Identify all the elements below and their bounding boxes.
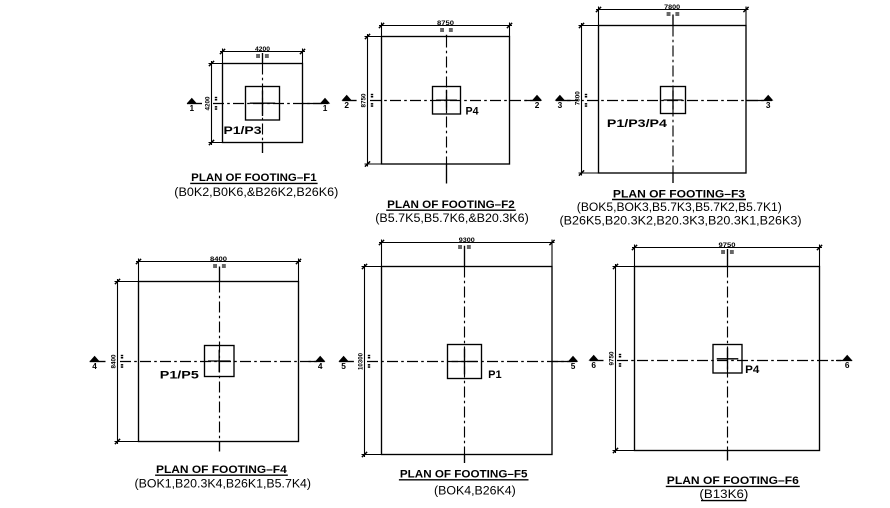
svg-text:PLAN OF FOOTING–F6: PLAN OF FOOTING–F6 bbox=[667, 475, 799, 487]
svg-text:P1/P3: P1/P3 bbox=[224, 125, 262, 137]
footing F4 horizontal section line bbox=[120, 361, 320, 363]
section marker 3 (left) bbox=[556, 100, 571, 102]
svg-text:PLAN OF FOOTING–F4: PLAN OF FOOTING–F4 bbox=[156, 464, 288, 476]
svg-text:P1/P5: P1/P5 bbox=[160, 370, 199, 382]
svg-text:3: 3 bbox=[766, 100, 771, 110]
svg-text:(B5.7K5,B5.7K6,&B20.3K6): (B5.7K5,B5.7K6,&B20.3K6) bbox=[375, 213, 529, 225]
svg-text:PLAN OF FOOTING–F2: PLAN OF FOOTING–F2 bbox=[387, 199, 515, 211]
centerline break marks left bbox=[371, 94, 373, 96]
centerline break marks left bbox=[368, 355, 370, 357]
footing F3 top dimension line 7800 bbox=[596, 7, 749, 26]
section marker 5 (left) bbox=[339, 361, 354, 363]
section marker 1 (left) bbox=[187, 103, 202, 105]
svg-text:8400: 8400 bbox=[111, 354, 118, 368]
footing F4 outline bbox=[139, 282, 299, 442]
footing F2 horizontal section line bbox=[370, 100, 536, 102]
footing F5 top dimension line 9300 bbox=[379, 240, 555, 267]
svg-text:P1: P1 bbox=[488, 369, 502, 381]
svg-text:5: 5 bbox=[571, 361, 576, 371]
footing F2 vertical centerline bbox=[446, 37, 448, 165]
footing F2 column pedestal bbox=[433, 87, 461, 115]
svg-text:4: 4 bbox=[318, 361, 323, 371]
centerline break marks left bbox=[619, 354, 621, 356]
svg-text:(B0K2,B0K6,&B26K2,B26K6): (B0K2,B0K6,&B26K2,B26K6) bbox=[174, 187, 338, 199]
footing F6 horizontal section line bbox=[617, 360, 841, 362]
svg-text:PLAN OF FOOTING–F1: PLAN OF FOOTING–F1 bbox=[191, 172, 316, 184]
svg-text:5: 5 bbox=[341, 361, 346, 371]
svg-text:PLAN OF FOOTING–F5: PLAN OF FOOTING–F5 bbox=[400, 469, 528, 481]
svg-text:9750: 9750 bbox=[719, 242, 737, 249]
footing F5 column pedestal bbox=[448, 345, 482, 379]
section marker 3 (right) bbox=[746, 100, 772, 102]
svg-text:8750: 8750 bbox=[361, 93, 368, 107]
section marker 1 (right) bbox=[303, 103, 329, 105]
centerline break marks left bbox=[215, 97, 217, 99]
svg-text:10300: 10300 bbox=[358, 353, 365, 370]
footing F5 vertical centerline bbox=[464, 267, 466, 455]
svg-text:P1/P3/P4: P1/P3/P4 bbox=[607, 118, 668, 130]
footing F4 top dimension line 8400 bbox=[136, 259, 301, 282]
footing F6 outline bbox=[635, 267, 820, 451]
footing F3 left dimension line 7800 bbox=[579, 23, 599, 176]
footing F1 column pedestal bbox=[246, 87, 280, 121]
svg-text:2: 2 bbox=[535, 100, 540, 110]
section marker 5 (right) bbox=[552, 361, 577, 363]
footing F4 column pedestal bbox=[205, 346, 235, 377]
footing F3 horizontal section line bbox=[567, 100, 768, 102]
svg-text:2: 2 bbox=[344, 100, 349, 110]
svg-text:(BOK4,B26K4): (BOK4,B26K4) bbox=[434, 486, 516, 498]
footing F5 outline bbox=[382, 267, 553, 455]
section marker 4 (right) bbox=[309, 361, 325, 363]
svg-text:4200: 4200 bbox=[205, 96, 212, 110]
section marker 2 (left) bbox=[342, 100, 356, 102]
centerline break marks left bbox=[121, 355, 123, 357]
svg-text:(BOK1,B20.3K4,B26K1,B5.7K4): (BOK1,B20.3K4,B26K1,B5.7K4) bbox=[135, 478, 312, 490]
footing F2 outline bbox=[382, 37, 510, 165]
svg-text:4: 4 bbox=[92, 361, 97, 371]
svg-text:(B26K5,B20.3K2,B20.3K3,B20.3K1: (B26K5,B20.3K2,B20.3K3,B20.3K1,B26K3) bbox=[560, 216, 802, 228]
svg-text:4200: 4200 bbox=[255, 46, 271, 53]
footing F6 left dimension line 9750 bbox=[613, 264, 635, 453]
section marker 2 (right) bbox=[525, 100, 542, 102]
centerline break marks top bbox=[458, 245, 462, 246]
svg-text:PLAN OF FOOTING–F3: PLAN OF FOOTING–F3 bbox=[613, 188, 745, 200]
footing F1 left dimension line 4200 bbox=[209, 61, 223, 145]
section marker 6 (left) bbox=[590, 360, 604, 362]
footing F4 left dimension line 8400 bbox=[115, 279, 139, 444]
footing F5 left dimension line 10300 bbox=[362, 264, 382, 457]
footing F3 outline bbox=[599, 26, 747, 174]
svg-text:1: 1 bbox=[323, 103, 328, 113]
svg-text:6: 6 bbox=[591, 360, 596, 370]
centerline break marks top bbox=[721, 250, 725, 251]
svg-text:9750: 9750 bbox=[609, 351, 616, 365]
footing F4 vertical centerline bbox=[219, 282, 221, 442]
footing F1 column cross bbox=[250, 91, 275, 117]
svg-text:8750: 8750 bbox=[437, 20, 455, 27]
footing F1 vertical centerline bbox=[262, 64, 264, 143]
svg-text:8400: 8400 bbox=[210, 256, 228, 263]
footing F2 top dimension line 8750 bbox=[379, 23, 512, 37]
footing F1 top dimension line 4200 bbox=[220, 49, 305, 64]
svg-text:P4: P4 bbox=[466, 106, 480, 118]
svg-text:3: 3 bbox=[558, 100, 563, 110]
svg-text:7800: 7800 bbox=[575, 91, 582, 105]
footing F3 vertical centerline bbox=[672, 26, 674, 174]
footing F6 column pedestal bbox=[713, 345, 742, 374]
footing F5 column cross bbox=[452, 349, 478, 375]
centerline break marks top bbox=[440, 28, 444, 29]
footing F3 column pedestal bbox=[661, 87, 686, 114]
footing F6 column cross bbox=[717, 348, 739, 370]
centerline break marks top bbox=[667, 12, 671, 13]
centerline break marks left bbox=[585, 94, 587, 96]
footing F6 top dimension line 9750 bbox=[632, 245, 822, 267]
svg-text:(B13K6): (B13K6) bbox=[699, 489, 748, 501]
footing F1 outline bbox=[223, 64, 303, 143]
svg-text:6: 6 bbox=[845, 360, 850, 370]
footing F3 column cross bbox=[664, 91, 683, 110]
footing F2 left dimension line 8750 bbox=[365, 34, 382, 167]
svg-text:7800: 7800 bbox=[664, 4, 681, 11]
footing F5 horizontal section line bbox=[367, 361, 573, 363]
svg-text:P4: P4 bbox=[745, 364, 760, 376]
centerline break marks top bbox=[213, 264, 217, 265]
footing F6 vertical centerline bbox=[727, 267, 729, 451]
svg-text:9300: 9300 bbox=[459, 237, 476, 244]
svg-text:(BOK5,BOK3,B5.7K3,B5.7K2,B5.7K: (BOK5,BOK3,B5.7K3,B5.7K2,B5.7K1) bbox=[577, 202, 782, 214]
footing F2 column cross bbox=[436, 90, 457, 111]
section marker 6 (right) bbox=[836, 360, 852, 362]
svg-text:1: 1 bbox=[189, 103, 194, 113]
footing F1 horizontal section line bbox=[213, 103, 322, 105]
section marker 4 (left) bbox=[90, 361, 106, 363]
centerline break marks top bbox=[256, 54, 260, 55]
footing F4 column cross bbox=[208, 350, 231, 372]
